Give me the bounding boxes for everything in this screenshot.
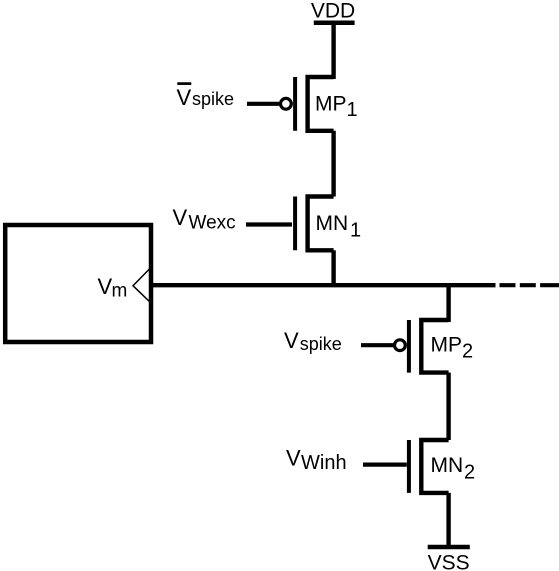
wire gate of MP1 xyxy=(247,102,279,106)
svg-text:V: V xyxy=(98,274,113,299)
svg-text:V: V xyxy=(177,85,192,110)
wire gate of MN2 xyxy=(363,463,407,467)
svg-text:MN: MN xyxy=(316,212,349,235)
wire node Vm horizontal xyxy=(153,283,496,287)
VDD supply bar xyxy=(314,20,355,25)
label MP2 xyxy=(431,333,474,362)
VSS supply bar xyxy=(428,545,470,550)
wire MP1 drain to MN1 drain xyxy=(331,131,335,197)
wire gate of MN1 xyxy=(246,222,292,226)
svg-text:1: 1 xyxy=(350,219,361,241)
label MN1 xyxy=(316,212,362,241)
svg-text:VDD: VDD xyxy=(311,0,355,22)
svg-text:V: V xyxy=(284,328,299,353)
svg-text:VSS: VSS xyxy=(428,552,470,571)
label Vspike (gate input of MP2) xyxy=(284,328,342,354)
svg-text:MP: MP xyxy=(315,93,347,116)
wire MN1 source to node Vm xyxy=(331,250,335,285)
wire node Vm to MP2 source xyxy=(446,285,450,322)
svg-text:MN: MN xyxy=(431,454,464,477)
svg-text:V: V xyxy=(286,446,301,471)
wire node Vm dashed continuation xyxy=(500,283,559,287)
node Vm chevron xyxy=(133,267,151,303)
svg-text:2: 2 xyxy=(464,462,475,484)
wire MP2 drain to MN2 drain xyxy=(446,373,450,440)
label Vspike-bar (gate input of MP1) xyxy=(177,84,235,110)
wire MN2 source to VSS xyxy=(446,493,450,547)
label VWinh (gate input of MN2) xyxy=(286,446,347,475)
wire VDD to MP1 source xyxy=(331,23,335,79)
svg-text:Winh: Winh xyxy=(301,452,347,474)
svg-text:m: m xyxy=(112,281,128,302)
svg-text:V: V xyxy=(173,205,188,230)
svg-text:MP: MP xyxy=(431,333,463,356)
transistor MP1 xyxy=(281,77,334,131)
transistor MN2 xyxy=(409,440,449,493)
svg-text:spike: spike xyxy=(192,89,234,109)
transistor MP2 xyxy=(395,320,449,373)
membrane box xyxy=(5,225,151,342)
label Vm xyxy=(98,274,128,302)
svg-text:spike: spike xyxy=(300,334,342,354)
svg-text:Wexc: Wexc xyxy=(189,213,236,234)
label MP1 xyxy=(315,93,358,121)
transistor MN1 xyxy=(295,197,334,251)
wire gate of MP2 xyxy=(361,343,393,347)
label VWexc (gate input of MN1) xyxy=(173,205,236,234)
label MN2 xyxy=(431,454,476,484)
svg-text:2: 2 xyxy=(462,341,473,363)
svg-text:1: 1 xyxy=(347,99,358,121)
